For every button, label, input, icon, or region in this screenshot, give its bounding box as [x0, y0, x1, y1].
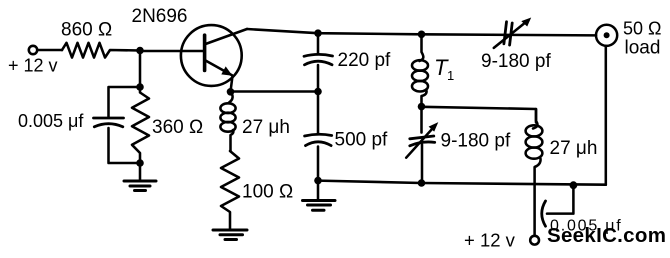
svg-text:1: 1 — [447, 68, 454, 83]
svg-text:50 Ω: 50 Ω — [623, 19, 661, 39]
svg-text:27 μh: 27 μh — [242, 117, 290, 138]
svg-text:2N696: 2N696 — [132, 6, 188, 27]
svg-text:500 pf: 500 pf — [335, 130, 389, 151]
svg-text:220 pf: 220 pf — [338, 50, 392, 71]
svg-text:0.005 μf: 0.005 μf — [550, 218, 623, 235]
svg-text:9-180 pf: 9-180 pf — [441, 131, 511, 152]
svg-text:9-180 pf: 9-180 pf — [481, 51, 551, 72]
svg-text:+ 12 v: + 12 v — [8, 56, 58, 76]
svg-text:0.005 μf: 0.005 μf — [18, 111, 84, 131]
svg-text:+ 12 v: + 12 v — [464, 230, 516, 251]
svg-text:load: load — [625, 38, 661, 59]
svg-text:360 Ω: 360 Ω — [152, 117, 203, 138]
svg-text:860 Ω: 860 Ω — [61, 20, 112, 41]
svg-text:27 μh: 27 μh — [550, 138, 598, 159]
svg-text:100 Ω: 100 Ω — [242, 182, 293, 203]
